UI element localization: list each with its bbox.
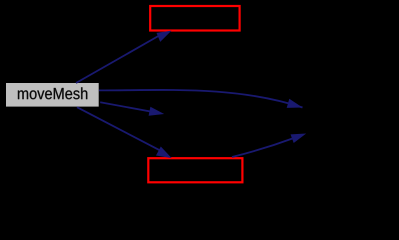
- edge moveMesh -> middle hidden node: [100, 102, 164, 115]
- node bottom truncated (red border, black fill): [148, 158, 242, 182]
- edge bottom node -> right hidden node: [232, 134, 306, 158]
- edge moveMesh -> bottom node: [77, 107, 172, 158]
- node top truncated (red border, black fill): [150, 6, 239, 31]
- edge moveMesh -> top node: [76, 31, 172, 83]
- node moveMesh (current node, grey): [6, 83, 99, 107]
- edge moveMesh -> right hidden node (curve): [99, 90, 303, 108]
